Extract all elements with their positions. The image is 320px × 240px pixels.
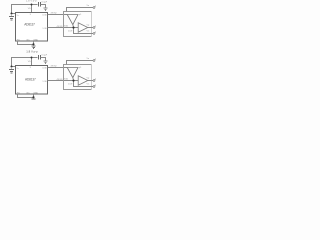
svg-text:AD8137: AD8137 [25,77,36,81]
svg-text:1.8 V p-p: 1.8 V p-p [26,0,37,3]
svg-text:1.8 V p-p: 1.8 V p-p [26,50,38,54]
svg-text:AD8137: AD8137 [24,23,35,27]
